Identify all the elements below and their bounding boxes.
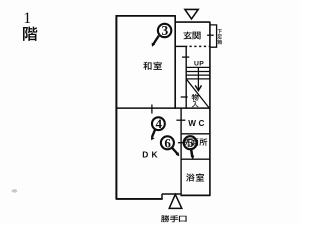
svg-text:6: 6 <box>164 135 171 150</box>
wall: washroom / bath divider <box>181 158 210 160</box>
door tick: closet wall <box>181 96 188 98</box>
label: 物入 (closet, vertical) <box>192 94 199 107</box>
marker circle 3 with pointer <box>152 23 172 47</box>
svg-text:4: 4 <box>155 116 162 131</box>
room label: 浴室 (bathroom) <box>186 173 204 181</box>
room label: 玄関 (entrance) <box>183 32 200 40</box>
svg-text:UP: UP <box>194 61 204 68</box>
back door triangle marker (bottom) <box>169 194 182 208</box>
room label: 洗面所 (washroom) <box>183 138 207 145</box>
entrance triangle marker (top) <box>185 9 198 19</box>
fixture: shoe cabinet box (getabako) <box>210 25 216 47</box>
room label: 和室 (tatami room) <box>143 62 161 70</box>
stair direction arrow <box>197 67 199 90</box>
wall: middle divider washitsu/DK <box>116 107 211 109</box>
label: 勝手口 (back door) <box>161 215 187 222</box>
wall: DK bottom wall <box>116 198 163 200</box>
door tick: washroom wall <box>178 142 186 144</box>
wall: genkan top wall <box>175 21 210 23</box>
svg-text:D: D <box>142 149 148 159</box>
wall: left outer wall <box>115 15 117 199</box>
svg-text:5: 5 <box>187 135 194 150</box>
label: 下足箱 (shoe box, vertical) <box>217 29 222 44</box>
wall: kitchen-door step vertical <box>161 194 163 200</box>
wall: genkan bottom solid segment <box>175 45 187 47</box>
door tick: DK divider vertical <box>151 105 153 114</box>
wall: kitchen-door notch top <box>162 193 181 195</box>
svg-text:W: W <box>188 119 196 128</box>
wall: bath bottom wall <box>180 194 210 196</box>
door tick: stair wall upper <box>182 56 189 58</box>
wall: top wall of washitsu <box>116 15 176 17</box>
label: floor kanji 階 <box>23 27 37 41</box>
wall: genkan bottom dotted doorway <box>190 45 210 47</box>
marker circle 6 with pointer <box>161 135 179 156</box>
marker circle 4 with pointer <box>151 116 165 140</box>
scan smudge <box>12 189 18 193</box>
wall: stair left wall <box>185 46 187 108</box>
wall: right column left wall <box>180 108 182 194</box>
door tick: WC wall <box>176 119 185 121</box>
svg-text:1: 1 <box>23 10 31 27</box>
svg-text:C: C <box>199 119 205 128</box>
stair break diagonal <box>186 79 209 107</box>
svg-text:3: 3 <box>162 23 169 38</box>
stair treads <box>186 67 210 79</box>
svg-text:K: K <box>152 149 158 159</box>
wall: right outer wall <box>209 22 211 196</box>
wall: washitsu right wall <box>174 16 176 109</box>
marker circle 5 with pointer <box>184 135 197 159</box>
wall: WC / washroom divider <box>181 133 210 135</box>
door tick: genkan right wall <box>207 34 214 36</box>
